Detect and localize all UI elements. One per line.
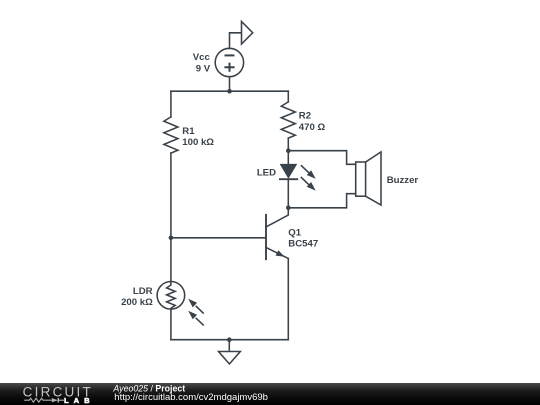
svg-text:Vcc: Vcc xyxy=(193,52,211,63)
wire left rail top to R1 xyxy=(170,91,172,117)
voltage source V1 Vcc 9V xyxy=(215,48,243,76)
wire bottom rail xyxy=(171,339,288,341)
LED light arrow 2 xyxy=(301,178,315,191)
svg-text:9 V: 9 V xyxy=(196,63,211,74)
CircuitLab logo wordmark LAB xyxy=(64,396,90,405)
LED diode xyxy=(280,165,297,180)
label Buzzer xyxy=(387,175,419,186)
svg-text:100 kΩ: 100 kΩ xyxy=(182,137,214,148)
LED light arrow 1 xyxy=(301,166,315,179)
wire Vcc source bottom to top rail xyxy=(229,77,231,92)
wire R1 bottom to LDR top (through base node) xyxy=(170,153,172,281)
svg-text:LDR: LDR xyxy=(133,286,153,297)
resistor R1 xyxy=(164,117,178,153)
wire base node to Q1 base xyxy=(171,237,266,239)
wire LED node to buzzer top terminal xyxy=(288,151,355,165)
svg-text:LED: LED xyxy=(257,168,276,179)
label Vcc 9V xyxy=(193,52,211,75)
junction dot ground node xyxy=(227,337,232,342)
label R1 100 kOhm xyxy=(182,126,214,148)
wire ground stub xyxy=(228,340,230,352)
svg-text:CIRCUIT: CIRCUIT xyxy=(23,385,91,400)
svg-text:BC547: BC547 xyxy=(288,239,318,250)
wire LED node to LED anode xyxy=(287,151,289,165)
photoresistor LDR xyxy=(157,282,185,310)
LDR light arrow 1 xyxy=(188,299,203,313)
svg-text:Buzzer: Buzzer xyxy=(387,175,419,186)
svg-text:200 kΩ: 200 kΩ xyxy=(121,297,153,308)
wire top rail from R1 top to R2 top xyxy=(171,90,288,92)
junction dot Vcc on top rail xyxy=(227,89,232,94)
label Q1 BC547 xyxy=(288,228,318,250)
svg-text:R1: R1 xyxy=(182,126,195,137)
ground symbol xyxy=(219,352,241,365)
transistor Q1 BC547 xyxy=(266,208,288,259)
svg-text:http://circuitlab.com/cv2mdgaj: http://circuitlab.com/cv2mdgajmv69b xyxy=(114,392,268,403)
label LED xyxy=(257,168,276,179)
junction dot LED anode node xyxy=(286,148,291,153)
svg-text:470 Ω: 470 Ω xyxy=(299,122,326,133)
buzzer LS1 speaker xyxy=(356,152,381,205)
resistor R2 xyxy=(281,102,295,138)
svg-text:LAB: LAB xyxy=(64,396,90,405)
wire R2 bottom to LED node xyxy=(287,138,289,151)
wire Vcc source top to net flag xyxy=(230,33,242,49)
wire LDR bottom to bottom rail xyxy=(170,309,172,340)
net flag Vcc xyxy=(242,22,253,45)
CircuitLab logo wordmark CIRCUIT xyxy=(23,385,91,400)
wire Q1 emitter to bottom rail xyxy=(287,259,289,340)
label R2 470 Ohm xyxy=(299,111,326,133)
footer bar xyxy=(0,383,540,405)
svg-text:Q1: Q1 xyxy=(288,228,301,239)
wire collector node to buzzer bottom terminal xyxy=(288,194,355,208)
footer text Ayeo025 / Project xyxy=(112,384,268,404)
junction dot collector node xyxy=(286,206,291,211)
wire right rail top to R2 xyxy=(287,91,289,102)
CircuitLab logo circuit squiggle with resistor and diode xyxy=(24,398,65,403)
svg-text:R2: R2 xyxy=(299,111,311,122)
wire LED cathode to collector node xyxy=(287,179,289,208)
junction dot base node xyxy=(169,236,174,241)
label LDR 200 kOhm xyxy=(121,286,153,308)
LDR light arrow 2 xyxy=(188,311,203,325)
